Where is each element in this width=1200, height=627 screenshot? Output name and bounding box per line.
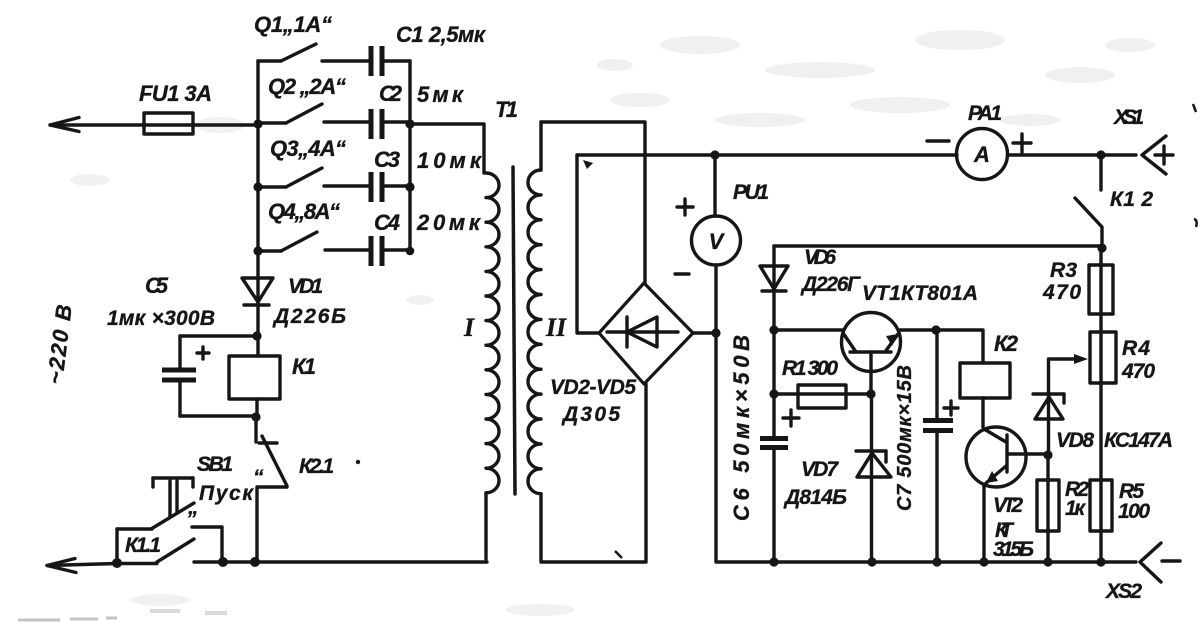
svg-text:КС147А: КС147А bbox=[1104, 429, 1173, 452]
svg-text:Пуск: Пуск bbox=[199, 482, 254, 505]
svg-text:С1 2,5мк: С1 2,5мк bbox=[396, 22, 487, 47]
svg-text:1мк ×300В: 1мк ×300В bbox=[107, 307, 215, 330]
svg-text:FU1 3А: FU1 3А bbox=[139, 81, 212, 106]
svg-text:R4: R4 bbox=[1122, 337, 1150, 360]
svg-text:R3: R3 bbox=[1050, 259, 1077, 282]
svg-text:315Б: 315Б bbox=[993, 538, 1034, 561]
svg-text:I: I bbox=[463, 313, 475, 342]
svg-text:К1: К1 bbox=[292, 354, 316, 379]
svg-text:К1 2: К1 2 bbox=[1110, 188, 1153, 211]
svg-text:Т1: Т1 bbox=[495, 97, 518, 122]
svg-text:VD2-VD5: VD2-VD5 bbox=[550, 376, 636, 399]
svg-text:К1.1: К1.1 bbox=[125, 534, 161, 557]
svg-text:Д814Б: Д814Б bbox=[783, 486, 847, 509]
svg-text:5мк: 5мк bbox=[417, 82, 465, 107]
svg-text:Д226Б: Д226Б bbox=[272, 305, 346, 328]
svg-text:Q4„8А“: Q4„8А“ bbox=[268, 199, 340, 224]
svg-text:Д305: Д305 bbox=[561, 403, 620, 426]
svg-text:V: V bbox=[709, 229, 726, 254]
svg-text:R1 300: R1 300 bbox=[782, 357, 838, 380]
svg-text:К2: К2 bbox=[994, 331, 1019, 356]
svg-text:XS2: XS2 bbox=[1105, 580, 1142, 603]
svg-text:А: А bbox=[973, 142, 990, 167]
svg-text:II: II bbox=[545, 313, 567, 342]
svg-text:SB1: SB1 bbox=[197, 453, 233, 476]
svg-text:XS1: XS1 bbox=[1113, 106, 1144, 129]
svg-text:VT2: VT2 bbox=[993, 494, 1023, 517]
svg-text:“: “ bbox=[253, 466, 264, 489]
svg-text:PA1: PA1 bbox=[968, 102, 1002, 125]
svg-text:Q2 „2А“: Q2 „2А“ bbox=[268, 74, 346, 99]
svg-text:20мк: 20мк bbox=[416, 210, 482, 235]
svg-text:К2.1: К2.1 bbox=[299, 455, 334, 478]
svg-text:VD8: VD8 bbox=[1056, 429, 1094, 452]
svg-text:С6 50мк×50В: С6 50мк×50В bbox=[729, 335, 754, 521]
svg-text:„: „ bbox=[187, 496, 199, 519]
svg-text:С5: С5 bbox=[145, 273, 169, 298]
svg-text:VD6: VD6 bbox=[804, 246, 836, 269]
svg-text:1к: 1к bbox=[1065, 497, 1086, 520]
svg-text:С7 500мк×15В: С7 500мк×15В bbox=[894, 365, 916, 511]
svg-text:VD7: VD7 bbox=[801, 458, 839, 481]
svg-text:470: 470 bbox=[1121, 360, 1155, 383]
svg-text:470: 470 bbox=[1042, 281, 1081, 304]
svg-text:Д226Г: Д226Г bbox=[800, 273, 861, 296]
svg-text:Q1„1А“: Q1„1А“ bbox=[254, 12, 332, 37]
svg-text:VD1: VD1 bbox=[288, 275, 323, 298]
svg-text:VT1КТ801А: VT1КТ801А bbox=[862, 282, 978, 305]
svg-text:100: 100 bbox=[1118, 500, 1150, 523]
svg-text:С2: С2 bbox=[379, 81, 403, 106]
svg-text:С3: С3 bbox=[374, 147, 400, 172]
svg-text:10мк: 10мк bbox=[417, 148, 483, 173]
svg-text:Q3„4А“: Q3„4А“ bbox=[270, 136, 346, 161]
svg-text:PU1: PU1 bbox=[733, 181, 769, 204]
svg-text:С4: С4 bbox=[374, 210, 400, 235]
